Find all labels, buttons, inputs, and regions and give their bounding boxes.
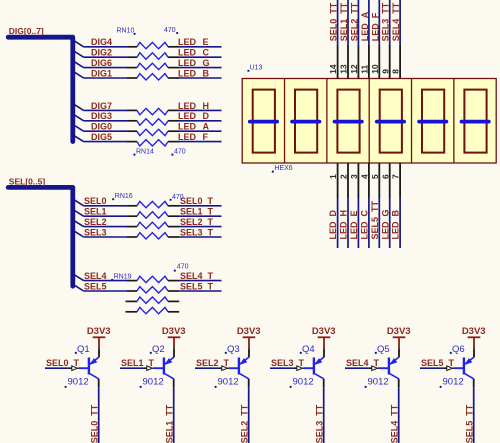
svg-text:3: 3 <box>349 174 359 179</box>
svg-text:SEL0T: SEL0T <box>180 196 214 206</box>
svg-text:LEDB: LEDB <box>391 210 401 240</box>
svg-text:LEDG: LEDG <box>380 209 390 239</box>
svg-text:SEL3T: SEL3T <box>180 227 214 237</box>
svg-text:SEL[0..5]: SEL[0..5] <box>9 176 46 186</box>
svg-text:SEL4: SEL4 <box>84 271 107 281</box>
svg-text:LEDC: LEDC <box>178 48 210 58</box>
svg-text:SEL3T: SEL3T <box>271 358 305 368</box>
svg-text:SEL4TT: SEL4TT <box>391 2 401 41</box>
svg-text:LEDA: LEDA <box>178 122 210 132</box>
svg-text:9012: 9012 <box>218 376 239 387</box>
svg-text:SEL4TT: SEL4TT <box>389 404 399 443</box>
svg-text:9: 9 <box>380 69 390 74</box>
svg-text:LEDH: LEDH <box>178 101 209 111</box>
svg-text:SEL2T: SEL2T <box>196 358 230 368</box>
svg-text:SEL0T: SEL0T <box>46 358 80 368</box>
svg-text:LEDB: LEDB <box>178 68 210 78</box>
svg-text:SEL0TT: SEL0TT <box>329 2 339 41</box>
svg-text:D3V3: D3V3 <box>387 326 411 337</box>
svg-text:6: 6 <box>380 174 390 179</box>
svg-text:LEDC: LEDC <box>360 210 370 240</box>
svg-text:Q1: Q1 <box>77 344 90 355</box>
svg-text:SEL5T: SEL5T <box>180 281 214 291</box>
svg-text:1: 1 <box>328 174 338 179</box>
svg-text:SEL2TT: SEL2TT <box>239 404 249 443</box>
svg-text:RN19: RN19 <box>114 274 132 281</box>
svg-text:DIG0: DIG0 <box>91 122 112 132</box>
svg-text:9012: 9012 <box>368 376 389 387</box>
svg-text:Q3: Q3 <box>227 344 240 355</box>
svg-text:D3V3: D3V3 <box>312 326 336 337</box>
svg-text:U13: U13 <box>250 65 263 72</box>
svg-text:SEL5TT: SEL5TT <box>370 200 380 239</box>
svg-text:SEL1T: SEL1T <box>121 358 155 368</box>
svg-text:RN14: RN14 <box>136 148 154 155</box>
svg-text:SEL3TT: SEL3TT <box>381 2 391 41</box>
svg-text:14: 14 <box>328 64 338 74</box>
svg-text:9012: 9012 <box>443 376 464 387</box>
svg-text:DIG4: DIG4 <box>91 37 112 47</box>
svg-text:D3V3: D3V3 <box>162 326 186 337</box>
svg-text:RN10: RN10 <box>117 28 135 35</box>
svg-text:SEL3TT: SEL3TT <box>314 404 324 443</box>
svg-text:LEDE: LEDE <box>349 210 359 239</box>
svg-text:470: 470 <box>164 27 176 34</box>
svg-text:DIG3: DIG3 <box>91 111 112 121</box>
svg-text:9012: 9012 <box>68 376 89 387</box>
svg-text:Q2: Q2 <box>152 344 165 355</box>
svg-text:SEL2: SEL2 <box>84 217 107 227</box>
svg-text:Q5: Q5 <box>377 344 390 355</box>
svg-text:HEX6: HEX6 <box>274 165 292 172</box>
svg-text:10: 10 <box>370 64 380 74</box>
svg-text:DIG1: DIG1 <box>91 68 112 78</box>
svg-text:8: 8 <box>391 69 401 74</box>
svg-text:DIG7: DIG7 <box>91 101 112 111</box>
svg-text:DIG[0..7]: DIG[0..7] <box>9 26 44 36</box>
svg-text:SEL0TT: SEL0TT <box>89 404 99 443</box>
svg-text:SEL4T: SEL4T <box>180 271 214 281</box>
svg-text:5: 5 <box>370 174 380 179</box>
svg-text:SEL5T: SEL5T <box>421 358 455 368</box>
svg-text:SEL1: SEL1 <box>84 207 107 217</box>
svg-text:D3V3: D3V3 <box>237 326 261 337</box>
svg-text:LEDG: LEDG <box>178 58 210 68</box>
svg-text:D3V3: D3V3 <box>462 326 486 337</box>
svg-text:4: 4 <box>360 174 370 179</box>
svg-text:D3V3: D3V3 <box>87 326 111 337</box>
svg-text:7: 7 <box>391 174 401 179</box>
svg-text:Q4: Q4 <box>302 344 315 355</box>
svg-text:SEL2TT: SEL2TT <box>349 2 359 41</box>
svg-text:LEDA: LEDA <box>360 11 370 41</box>
svg-text:LEDF: LEDF <box>370 12 380 41</box>
svg-text:Q6: Q6 <box>452 344 465 355</box>
svg-text:470: 470 <box>172 194 184 201</box>
svg-text:SEL4T: SEL4T <box>346 358 380 368</box>
svg-text:DIG2: DIG2 <box>91 48 112 58</box>
svg-text:SEL2T: SEL2T <box>180 217 214 227</box>
svg-text:DIG5: DIG5 <box>91 132 112 142</box>
svg-text:13: 13 <box>339 64 349 74</box>
svg-text:LEDE: LEDE <box>178 37 209 47</box>
svg-text:470: 470 <box>177 264 189 271</box>
svg-text:9012: 9012 <box>143 376 164 387</box>
svg-text:LEDD: LEDD <box>328 210 338 240</box>
svg-text:LEDF: LEDF <box>178 132 209 142</box>
svg-text:SEL3: SEL3 <box>84 227 107 237</box>
svg-text:LEDD: LEDD <box>178 111 210 121</box>
svg-text:470: 470 <box>174 148 186 155</box>
svg-text:12: 12 <box>349 64 359 74</box>
svg-text:2: 2 <box>339 174 349 179</box>
svg-text:SEL1TT: SEL1TT <box>164 404 174 443</box>
svg-text:9012: 9012 <box>293 376 314 387</box>
svg-text:11: 11 <box>360 65 370 74</box>
svg-text:SEL0: SEL0 <box>84 196 107 206</box>
svg-text:SEL5: SEL5 <box>84 281 107 291</box>
svg-text:DIG6: DIG6 <box>91 58 112 68</box>
svg-text:RN16: RN16 <box>115 193 133 200</box>
svg-text:LEDH: LEDH <box>339 210 349 240</box>
svg-text:SEL1T: SEL1T <box>180 207 214 217</box>
svg-text:SEL5TT: SEL5TT <box>464 404 474 443</box>
svg-text:SEL1TT: SEL1TT <box>339 2 349 41</box>
